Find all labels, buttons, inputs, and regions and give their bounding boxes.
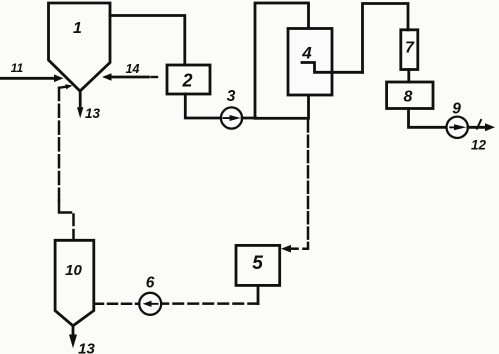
box 4 (overlapping column A) — [288, 29, 332, 96]
wire box8 to pump9 — [409, 109, 447, 128]
dashed wire pump6 to vessel10 — [94, 303, 139, 306]
outlet line 12 with arrow and tick — [468, 126, 487, 129]
vessel 1 (hopper with conical bottom) — [49, 3, 111, 91]
pump 9 arrow — [449, 124, 466, 130]
outlet arrow 13 from vessel10 — [72, 326, 75, 337]
pump 6 arrow (points left) — [143, 301, 159, 307]
svg-text:8: 8 — [404, 89, 413, 106]
arrow into box 5 — [291, 247, 298, 250]
svg-text:7: 7 — [405, 40, 415, 57]
svg-text:11: 11 — [11, 61, 24, 75]
pump 3 arrow — [223, 115, 241, 121]
wire pump3 to column A — [242, 117, 256, 120]
feed line 14 with arrow — [111, 76, 149, 79]
small arrow into vessel1 cone — [59, 87, 67, 88]
dashed recycle line vessel1 to vessel10 — [58, 88, 61, 201]
svg-text:13: 13 — [78, 341, 95, 354]
pump 6 circle — [139, 293, 161, 315]
column B riser pipe — [363, 4, 409, 73]
outlet arrow 13 from vessel1 — [79, 91, 82, 110]
svg-text:2: 2 — [181, 71, 192, 91]
svg-text:13: 13 — [85, 106, 101, 121]
svg-text:10: 10 — [65, 262, 82, 279]
dashed recycle line column A bottom to box 5 — [304, 121, 309, 249]
svg-text:12: 12 — [471, 138, 487, 153]
pipe from box4 to column B — [302, 63, 363, 73]
wire box2 to pump3 — [185, 94, 221, 118]
box 8 — [387, 82, 433, 109]
wire box5 down — [257, 285, 260, 303]
wire box7 to box8 — [407, 70, 410, 83]
pump 3 circle — [221, 107, 242, 128]
svg-text:9: 9 — [452, 101, 461, 118]
wire vessel1 top to box2 — [110, 16, 185, 66]
box 2 — [167, 65, 210, 94]
svg-text:1: 1 — [73, 20, 82, 37]
dashed wire box5 to pump6 — [161, 302, 258, 305]
pump 9 circle — [447, 117, 468, 138]
feed line 11 with arrow — [0, 77, 55, 80]
column A (tall apparatus) — [255, 3, 309, 118]
svg-text:14: 14 — [126, 62, 140, 76]
box 5 — [236, 245, 280, 285]
vessel 10 (hopper with conical bottom) — [55, 240, 94, 325]
svg-text:3: 3 — [227, 88, 236, 105]
svg-text:6: 6 — [146, 275, 155, 292]
svg-text:5: 5 — [252, 253, 263, 274]
svg-text:4: 4 — [301, 44, 312, 63]
box 7 — [401, 30, 418, 70]
